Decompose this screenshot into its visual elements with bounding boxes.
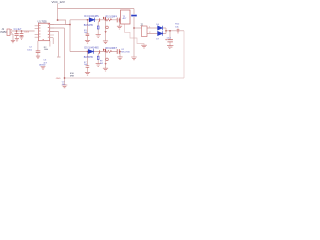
svg-text:C1 4u7: C1 4u7: [14, 28, 22, 31]
svg-text:AGND: AGND: [39, 63, 46, 66]
svg-text:100n: 100n: [27, 49, 33, 51]
svg-text:MIC2940: MIC2940: [121, 52, 130, 54]
svg-text:D5 1N4148S: D5 1N4148S: [84, 47, 99, 50]
svg-text:VCC_12V: VCC_12V: [52, 0, 65, 4]
svg-text:100n: 100n: [24, 32, 30, 34]
svg-text:BC557B: BC557B: [84, 56, 93, 59]
svg-text:D4 1N4148S: D4 1N4148S: [84, 15, 99, 18]
svg-text:100k: 100k: [44, 49, 48, 51]
svg-text:GND: GND: [56, 78, 61, 80]
svg-text:U1 7555: U1 7555: [38, 20, 48, 23]
svg-text:PWM: PWM: [1, 31, 7, 34]
svg-text:BC547B: BC547B: [84, 24, 93, 27]
